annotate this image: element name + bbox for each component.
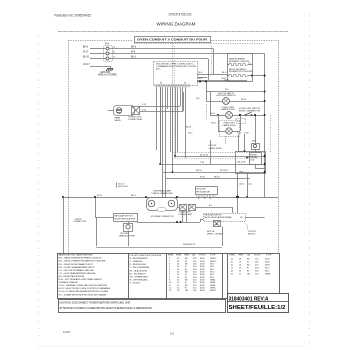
svg-text:LAMPE FOUR: LAMPE FOUR	[221, 108, 235, 111]
wire relay bottom to bus	[238, 164, 265, 198]
EOC right pin stubs	[197, 72, 207, 80]
wire feed to oven light	[210, 92, 226, 116]
bus wire T-10	[160, 87, 265, 164]
svg-text:P-10: P-10	[237, 133, 241, 135]
caution box	[59, 300, 226, 313]
svg-text:BK-10: BK-10	[196, 170, 202, 172]
junction bus y91	[264, 91, 266, 93]
relay enclosure box	[236, 152, 266, 174]
svg-text:R.F. - RIGHT FRONT/AVANT DROI: R.F. - RIGHT FRONT/AVANT DROIT	[59, 263, 94, 266]
svg-text:W: W	[247, 262, 249, 264]
svg-text:P2: P2	[184, 83, 186, 85]
svg-text:BK-50: BK-50	[186, 126, 191, 128]
svg-text:CONVECTEUR: CONVECTEUR	[128, 119, 143, 121]
svg-text:DLB: DLB	[250, 159, 255, 161]
svg-text:A-36: A-36	[225, 79, 229, 82]
svg-text:WIRE: WIRE	[176, 254, 182, 256]
svg-text:T.O.D.- THERMAL OVERLOAD DEVIC: T.O.D.- THERMAL OVERLOAD DEVICE/LIMITEUR	[59, 284, 108, 287]
legend outer box	[58, 254, 280, 299]
wire BL-9 drop to element	[207, 49, 227, 75]
junction main drop	[236, 196, 239, 199]
svg-text:P-A: P-A	[105, 42, 109, 45]
svg-text:SEW-2: SEW-2	[210, 290, 217, 292]
svg-text:316243400 T.B.: 316243400 T.B.	[183, 244, 196, 246]
svg-text:R-10: R-10	[245, 133, 249, 135]
color code text block	[130, 255, 162, 285]
junction broil output	[251, 75, 253, 77]
junction lamp right corner	[176, 196, 178, 198]
optional second oven light dashed box	[220, 121, 240, 137]
bake element heater	[227, 63, 252, 66]
svg-text:BK-6: BK-6	[131, 46, 137, 48]
legend divider table1/table2	[222, 253, 224, 298]
labels A-15 A-2	[240, 182, 253, 185]
svg-text:(R) - RECEPTACLE/PRISE: (R) - RECEPTACLE/PRISE	[59, 275, 85, 278]
page border bottom dotted	[38, 346, 309, 348]
connector component below niveau	[213, 221, 221, 227]
wire bus drop to HSI	[252, 114, 256, 143]
svg-text:ABBREVIATIONS / ABREVIATIONS: ABBREVIATIONS / ABREVIATIONS	[59, 254, 94, 257]
wire main drop to niveau box	[237, 197, 239, 213]
legend divider colorcode/table	[166, 253, 168, 298]
svg-text:WIRE: WIRE	[230, 254, 236, 256]
svg-text:TYPE: TYPE	[266, 254, 272, 256]
svg-text:Y - YELLOW/JAUNE: Y - YELLOW/JAUNE	[130, 266, 150, 269]
regular switch micro niveau dashed box	[204, 214, 246, 222]
svg-text:SRML: SRML	[265, 274, 271, 276]
svg-text:SHEET/FEUILLE:1/2: SHEET/FEUILLE:1/2	[229, 305, 286, 311]
junction bus y75	[264, 75, 266, 77]
wire HSI to relay	[255, 149, 257, 153]
svg-text:600V: 600V	[200, 290, 205, 292]
svg-text:P1: P1	[160, 83, 162, 85]
svg-text:WIRING DIAGRAM: WIRING DIAGRAM	[157, 22, 196, 27]
wire valve stub left	[108, 110, 114, 112]
svg-text:ATTENTION:COUPEZ L'ALIMENTATIO: ATTENTION:COUPEZ L'ALIMENTATION AVANT D'…	[60, 307, 153, 310]
bus wire BK-10	[163, 170, 265, 172]
oven light lamp four	[221, 107, 235, 119]
overhead lamp fluorescent assembly	[147, 190, 178, 219]
ground symbol	[98, 69, 117, 77]
svg-text:R - RED/ROUGE: R - RED/ROUGE	[130, 264, 147, 266]
svg-text:O - ORANGE: O - ORANGE	[130, 260, 143, 263]
svg-text:B.E. - BAKE ELEMENT/ELEMENT C: B.E. - BAKE ELEMENT/ELEMENT CUISSON	[59, 257, 102, 260]
svg-text:WIRE: WIRE	[168, 254, 174, 256]
svg-text:MICRO REGULATEUR: MICRO REGULATEUR	[115, 217, 136, 220]
junction lower b	[180, 221, 182, 223]
svg-text:ELEMENT ROTISSOIRE: ELEMENT ROTISSOIRE	[229, 71, 253, 73]
svg-text:24-10 W: 24-10 W	[220, 170, 228, 172]
svg-text:INTER. LUMIERE POR.: INTER. LUMIERE POR.	[239, 110, 261, 112]
svg-text:T.B.: T.B.	[240, 217, 244, 219]
svg-text:BL-9: BL-9	[131, 57, 136, 59]
wire broil to right bus	[252, 75, 265, 77]
main horizontal bus W-51	[63, 195, 278, 198]
junction light left	[217, 114, 219, 116]
svg-text:CONNECTEUR: CONNECTEUR	[179, 214, 193, 216]
lower link wire	[96, 218, 222, 248]
junction lamp left corner	[145, 196, 147, 198]
svg-text:W - WHITE/BLANC: W - WHITE/BLANC	[130, 279, 149, 282]
svg-text:L.R. - LEFT REAR/ARRIERE GAUC: L.R. - LEFT REAR/ARRIERE GAUCHE	[59, 272, 96, 275]
svg-text:W-6: W-6	[196, 98, 199, 100]
junction lower a	[176, 221, 178, 223]
svg-text:ELEMENT CUISSON: ELEMENT CUISSON	[229, 61, 250, 63]
svg-text:HOLD 24V: HOLD 24V	[118, 186, 128, 188]
broil element heater	[227, 74, 252, 76]
svg-text:TEMP: TEMP	[184, 254, 190, 256]
motor latch / moteur verrou	[217, 92, 236, 105]
bus wire W-10	[166, 176, 250, 178]
svg-text:A-1: A-1	[209, 204, 212, 207]
page border left dotted	[38, 36, 40, 337]
svg-text:TYPE: TYPE	[210, 254, 216, 256]
svg-text:VERR + LA TEMP: VERR + LA TEMP	[207, 232, 224, 235]
inner dashed conduit box A	[134, 44, 271, 153]
svg-text:BL - BLUE/BLEU: BL - BLUE/BLEU	[130, 273, 146, 275]
label bake element	[229, 57, 250, 62]
svg-text:REGULATEUR: REGULATEUR	[196, 190, 210, 193]
oven conduit outer dashed frame	[68, 40, 279, 253]
svg-text:600V: 600V	[265, 262, 270, 264]
wire GN-17 ground branch	[83, 64, 111, 69]
HSI igniter box	[252, 144, 260, 150]
svg-text:BK-36: BK-36	[241, 99, 246, 101]
motor verrou component	[119, 222, 136, 238]
title separator dotted line	[58, 31, 288, 33]
connector pair boxes	[179, 204, 196, 216]
svg-text:BK-6: BK-6	[83, 46, 89, 48]
igniter oven valve subcircuit	[114, 106, 135, 123]
svg-text:BL-9: BL-9	[199, 72, 203, 74]
page border right dotted	[309, 14, 311, 345]
svg-text:OVEN CONDUIT // CONDUIT DU FOU: OVEN CONDUIT // CONDUIT DU FOUR	[137, 38, 207, 42]
svg-text:R.R. - RIGHT REAR/ARRIERE DRO: R.R. - RIGHT REAR/ARRIERE DROIT	[59, 266, 96, 269]
abbreviations text block	[59, 254, 111, 297]
svg-text:EOC: EOC	[156, 68, 161, 70]
wire Y-70	[140, 104, 180, 106]
wire motor latch row	[229, 101, 264, 103]
option note	[246, 224, 257, 236]
wire feed to motor latch	[196, 92, 223, 102]
svg-text:TEMP: TEMP	[238, 254, 244, 256]
svg-text:REGULAR SWITCH: REGULAR SWITCH	[115, 215, 134, 218]
labels on bundle wires	[186, 126, 192, 134]
wire vertical left drop	[63, 197, 65, 253]
door light switch	[239, 108, 261, 116]
connector stub below switch	[237, 119, 246, 124]
wire oven light row	[210, 113, 265, 115]
wire connector to niveau box	[195, 204, 233, 213]
junction bus y101	[264, 100, 266, 102]
svg-text:B.R. - BROIL ELEMENT/ELEMENT: B.R. - BROIL ELEMENT/ELEMENT ROTISSOIRE	[59, 261, 106, 263]
wire niveau box to bus	[245, 217, 265, 219]
connector P-A	[104, 42, 113, 61]
wire EOC output y91 to bus	[206, 82, 265, 92]
relay / relais	[250, 153, 262, 165]
wire BK-6 top row	[83, 46, 213, 48]
svg-text:MICRO REGULATEUR NIVEAU: MICRO REGULATEUR NIVEAU	[205, 216, 233, 219]
svg-text:BL-50: BL-50	[83, 57, 90, 59]
wire lamp to connector	[177, 207, 179, 209]
svg-text:600V: 600V	[265, 259, 270, 261]
svg-text:SYSTEME CONNECTOR: SYSTEME CONNECTOR	[151, 216, 175, 218]
svg-text:L.F. - LEFT FRONT/AVANT GAUCH: L.F. - LEFT FRONT/AVANT GAUCHE	[59, 269, 95, 272]
svg-text:600V: 600V	[265, 265, 270, 267]
bus wire BL-50-10	[175, 154, 265, 156]
regular switch micro regulator	[95, 214, 138, 222]
svg-text:VOLTS: VOLTS	[254, 254, 261, 256]
svg-text:V - VIOLET: V - VIOLET	[130, 283, 141, 285]
svg-text:GN - GREEN/VERT: GN - GREEN/VERT	[130, 277, 149, 279]
wire switch leads	[199, 197, 211, 199]
wire V-70	[140, 92, 184, 112]
svg-text:E.O.C.- ELECTRONIC OVEN CONTRO: E.O.C.- ELECTRONIC OVEN CONTROL/COMMANDE	[59, 287, 111, 290]
label verr a la temp	[207, 231, 224, 236]
svg-text:T-36: T-36	[225, 89, 229, 91]
svg-text:CONNECTOR: CONNECTOR	[73, 221, 86, 223]
svg-text:W-51: W-51	[97, 195, 103, 197]
junction relay a	[244, 150, 246, 152]
svg-text:H.S.I.- HOT SURFACE IGNITOR/AL: H.S.I.- HOT SURFACE IGNITOR/ALLUMEUR	[59, 278, 102, 281]
label broil element	[229, 69, 253, 73]
svg-text:CAUTION: DISCONNECT POWER BEFO: CAUTION: DISCONNECT POWER BEFORE SERVICI…	[60, 302, 132, 305]
light switch regulator box	[196, 187, 218, 198]
label option lamp	[209, 136, 226, 150]
legend divider table2 left	[227, 253, 229, 298]
svg-text:W-10: W-10	[188, 133, 192, 135]
junction bus joins	[159, 155, 265, 173]
wire drop lamp circuits	[183, 210, 223, 246]
svg-text:GROUND: GROUND	[100, 72, 110, 74]
svg-text:BK-1: BK-1	[131, 195, 137, 197]
convection connector box	[128, 106, 143, 121]
svg-text:BK-10 W: BK-10 W	[238, 162, 246, 164]
EOC pin labels	[160, 83, 186, 85]
svg-text:HSI: HSI	[252, 140, 256, 142]
wire EOC output y81 to element	[197, 79, 247, 83]
legend divider abbreviations/colorcode	[128, 253, 130, 298]
svg-text:11/07: 11/07	[63, 330, 71, 334]
svg-text:BL-50.10: BL-50.10	[200, 154, 209, 156]
svg-text:CFEF372EC6: CFEF372EC6	[169, 13, 192, 17]
bake and broil element box	[228, 54, 253, 82]
right pin drop wire	[210, 140, 212, 164]
conduit dashed stub right	[206, 104, 208, 120]
svg-text:SURFACE CHAUDE: SURFACE CHAUDE	[59, 281, 79, 284]
note 24T-20 hold	[117, 183, 129, 189]
part number revision box	[227, 294, 289, 313]
svg-text:MISE A LA TERRE: MISE A LA TERRE	[98, 74, 117, 77]
svg-text:GN-17: GN-17	[83, 64, 90, 66]
svg-text:BK-4: BK-4	[212, 122, 216, 124]
wire table 1	[168, 253, 217, 292]
right vertical bus L1	[264, 54, 266, 198]
wire W-9 drop segment	[207, 59, 246, 81]
svg-text:VALVE: VALVE	[115, 119, 122, 122]
junction main bus left	[62, 196, 64, 198]
svg-text:TUBE FLUORESCENT: TUBE FLUORESCENT	[151, 193, 174, 195]
wire BL-50 / BL-9 row	[83, 57, 208, 59]
svg-text:F.S. - FLAME SWITCH/DETECTEUR: F.S. - FLAME SWITCH/DETECTEUR DE FLAMME	[59, 293, 107, 296]
svg-text:VOLTS: VOLTS	[199, 254, 206, 256]
svg-text:LAMPE FOUR: LAMPE FOUR	[222, 124, 236, 127]
inner dashed conduit box B	[175, 46, 265, 159]
wire relay left taps	[237, 133, 249, 158]
svg-text:L-1: L-1	[248, 63, 251, 65]
svg-text:COLOR CODE/CODE COULEUR: COLOR CODE/CODE COULEUR	[130, 255, 162, 257]
svg-text:MOTEUR VERROU: MOTEUR VERROU	[217, 95, 236, 97]
svg-text:COMMANDE ELECTRONIQUE DU FOUR: COMMANDE ELECTRONIQUE DU FOUR	[156, 65, 196, 68]
junction bus y115	[264, 114, 266, 116]
front connector label	[73, 196, 96, 223]
svg-text:INCLUS: INCLUS	[248, 233, 256, 235]
svg-text:BK-10: BK-10	[214, 176, 220, 178]
label OVEN CONDUIT // CONDUIT DU FOUR	[135, 37, 211, 43]
wire W-17 / W-9 row	[83, 52, 265, 54]
svg-text:VERR A LA TEMP: VERR A LA TEMP	[119, 234, 136, 237]
EOC comb descending wires	[157, 87, 186, 197]
junction relay b	[246, 157, 248, 159]
electronic oven control EOC box	[154, 62, 198, 86]
svg-text:Publication No: 5995504052: Publication No: 5995504052	[54, 14, 91, 18]
junction light right	[239, 114, 241, 116]
svg-text:1/2: 1/2	[170, 332, 175, 336]
svg-text:W-17: W-17	[83, 52, 89, 54]
EOC connector comb	[156, 85, 158, 87]
svg-text:BK - BLACK/NOIR: BK - BLACK/NOIR	[130, 269, 148, 272]
wire second light taps	[218, 115, 241, 132]
svg-text:W-9: W-9	[199, 78, 202, 80]
wire table 2	[230, 253, 272, 275]
svg-text:B - BROWN/BRUN: B - BROWN/BRUN	[130, 258, 148, 260]
svg-text:D.L.B.- DOUBLE LINE BREAK/RUPT: D.L.B.- DOUBLE LINE BREAK/RUPTURE 2 LIGN…	[59, 290, 109, 293]
